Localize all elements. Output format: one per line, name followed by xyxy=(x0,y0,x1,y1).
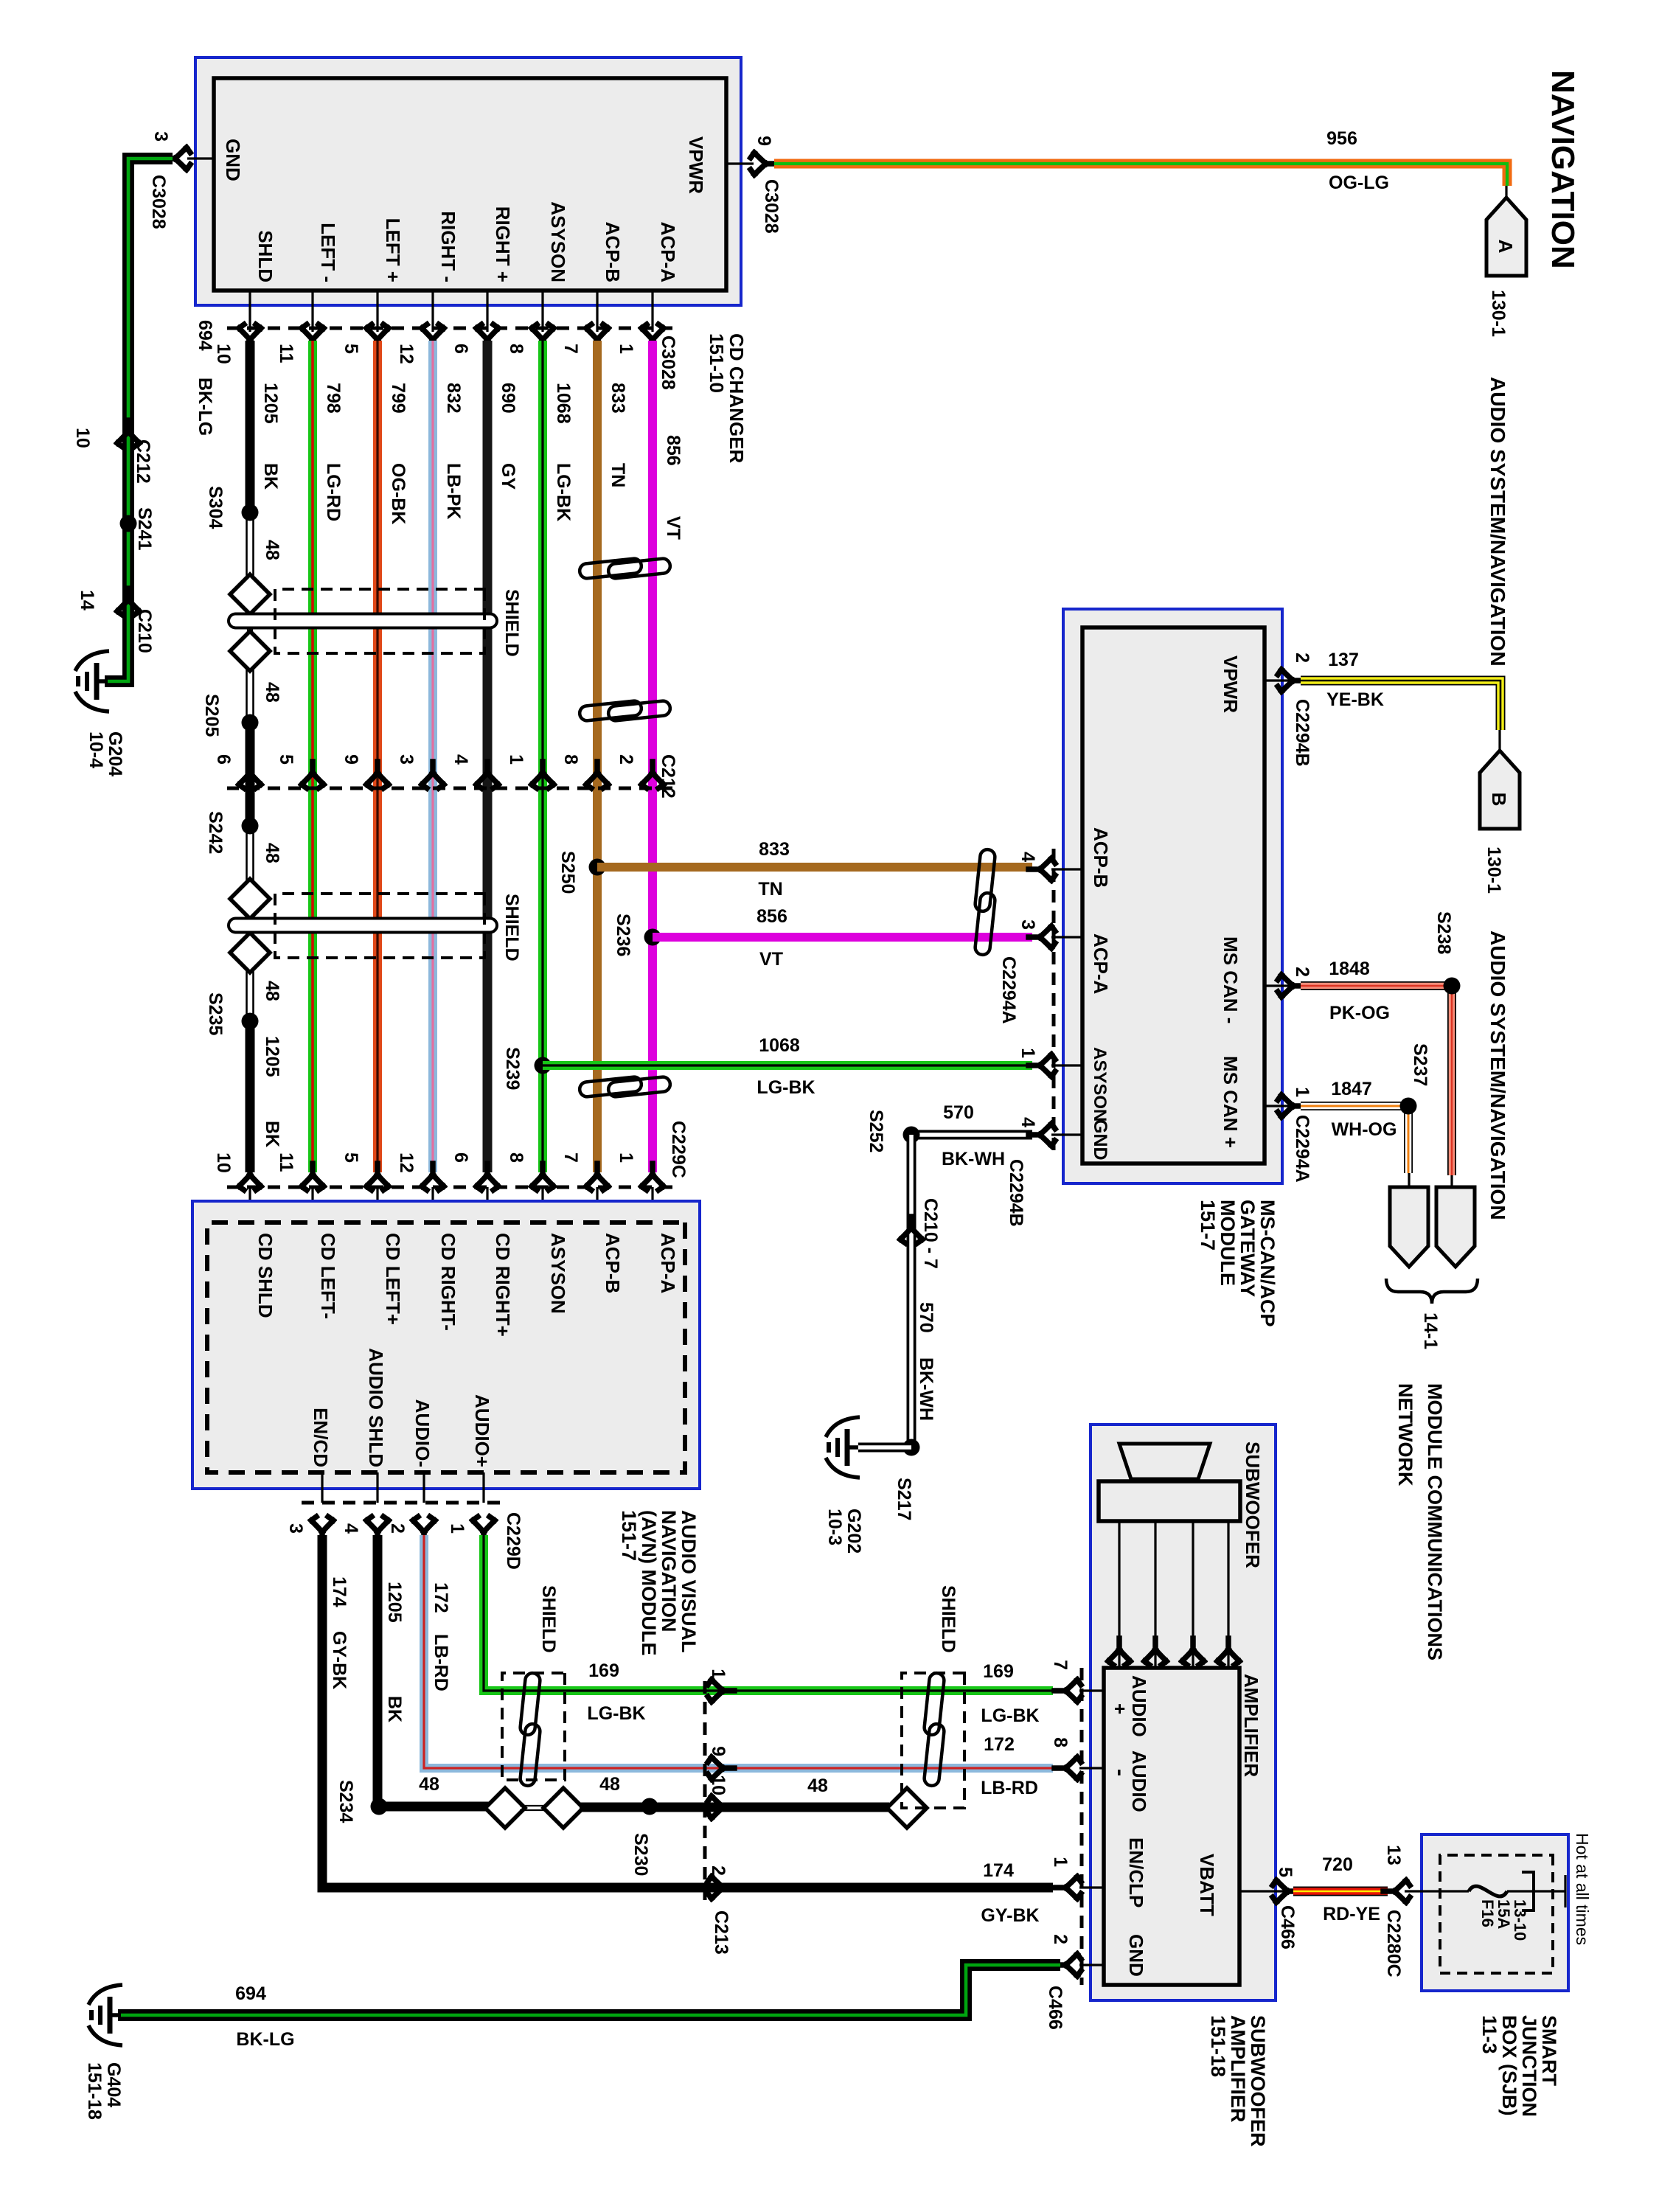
gateway bottom stub x1271 xyxy=(1051,936,1082,938)
splice S217 xyxy=(903,1439,920,1456)
svg-text:AUDIO VISUAL: AUDIO VISUAL xyxy=(678,1510,700,1653)
arrow at C212 RIGHT- xyxy=(422,762,444,788)
splice S234 xyxy=(371,1798,388,1815)
svg-text:G202: G202 xyxy=(844,1509,864,1554)
svg-text:10: 10 xyxy=(708,1775,728,1795)
svg-text:S217: S217 xyxy=(894,1478,914,1520)
connector C3028 dashed line xyxy=(227,327,672,330)
svg-text:13: 13 xyxy=(1383,1845,1404,1865)
svg-text:798: 798 xyxy=(323,383,344,414)
svg-text:694: 694 xyxy=(235,1983,266,2004)
arrow at C229D AUDIO SHLD xyxy=(366,1517,389,1543)
arrow at C229C RIGHT+ xyxy=(476,1164,498,1190)
wire 172 LB-RD xyxy=(424,1535,1053,1768)
arrow at C213 x2560 xyxy=(708,1877,734,1899)
svg-text:8: 8 xyxy=(1050,1737,1071,1747)
svg-text:172: 172 xyxy=(431,1582,451,1613)
svg-text:4: 4 xyxy=(341,1523,361,1534)
gateway VPWR stub xyxy=(1265,679,1293,681)
CD changer pin stub LEFT- xyxy=(311,291,313,332)
svg-text:OG-LG: OG-LG xyxy=(1329,173,1389,193)
svg-text:956: 956 xyxy=(1326,128,1357,149)
svg-text:C2294A: C2294A xyxy=(998,956,1019,1024)
CD changer pin stub SHLD xyxy=(248,291,251,332)
svg-text:832: 832 xyxy=(443,383,464,414)
svg-text:ACP-A: ACP-A xyxy=(657,1233,679,1294)
arrow at C3028 RIGHT- xyxy=(422,324,444,351)
svg-text:694: 694 xyxy=(195,320,215,351)
svg-text:1: 1 xyxy=(708,1669,728,1679)
svg-text:10: 10 xyxy=(72,428,93,448)
splice S241 xyxy=(120,515,137,532)
svg-text:A: A xyxy=(1495,240,1517,254)
amp VBATT arrow pin 5 xyxy=(1273,1880,1299,1902)
svg-text:GY: GY xyxy=(498,463,518,490)
subwoofer wire arrow 2 xyxy=(1182,1638,1204,1665)
svg-text:720: 720 xyxy=(1322,1854,1353,1875)
svg-text:S236: S236 xyxy=(613,914,633,956)
svg-text:12: 12 xyxy=(396,344,417,364)
svg-text:1848: 1848 xyxy=(1329,959,1370,979)
svg-text:CD CHANGER: CD CHANGER xyxy=(726,333,748,463)
subwoofer wire 2 xyxy=(1192,1521,1194,1668)
svg-text:C2294B: C2294B xyxy=(1006,1159,1026,1227)
svg-text:AMPLIFIER: AMPLIFIER xyxy=(1227,2015,1249,2123)
shield diamond 4 xyxy=(230,933,270,973)
svg-text:NAVIGATION: NAVIGATION xyxy=(658,1510,680,1632)
CD changer pin VPWR stub xyxy=(726,162,754,164)
svg-text:LEFT -: LEFT - xyxy=(317,223,339,282)
svg-text:CD SHLD: CD SHLD xyxy=(254,1233,276,1318)
svg-text:C466: C466 xyxy=(1045,1986,1065,2030)
svg-text:1: 1 xyxy=(447,1523,467,1534)
svg-text:1: 1 xyxy=(1292,1087,1312,1097)
svg-text:ACP-A: ACP-A xyxy=(657,222,679,283)
arrow at C212 LEFT+ xyxy=(366,762,389,788)
svg-text:S234: S234 xyxy=(335,1780,356,1823)
arrow at C213 x2398 xyxy=(708,1757,734,1779)
svg-text:CD LEFT+: CD LEFT+ xyxy=(382,1233,404,1325)
svg-text:S205: S205 xyxy=(201,694,222,737)
svg-text:MS-CAN/ACP: MS-CAN/ACP xyxy=(1256,1200,1279,1327)
wire 1205 BK (AUDIO SHLD) xyxy=(373,1535,383,1806)
gateway bottom arrow pin 4 x1539 xyxy=(1029,1124,1055,1146)
svg-text:AUDIO SYSTEM/NAVIGATION: AUDIO SYSTEM/NAVIGATION xyxy=(1486,931,1509,1220)
drain wire open segment S242-diamond3 xyxy=(252,830,254,881)
arrow at C212 ASYSON xyxy=(532,762,554,788)
svg-text:SUBWOOFER: SUBWOOFER xyxy=(1242,1441,1264,1568)
svg-text:SHIELD: SHIELD xyxy=(938,1585,959,1653)
wire 690 GY (RIGHT+) xyxy=(483,341,493,1172)
subwoofer wire arrow 1 xyxy=(1217,1638,1239,1665)
subwoofer wire arrow 3 xyxy=(1144,1638,1166,1665)
subwoofer wire 3 xyxy=(1154,1521,1156,1668)
svg-text:1205: 1205 xyxy=(262,1036,282,1077)
svg-text:S230: S230 xyxy=(630,1833,651,1876)
fuse bracket xyxy=(1522,1872,1534,1910)
svg-text:MODULE: MODULE xyxy=(1217,1200,1239,1286)
drain wire under shield bar 2 xyxy=(251,917,253,956)
svg-text:9: 9 xyxy=(754,136,774,146)
svg-text:LG-BK: LG-BK xyxy=(981,1705,1039,1726)
svg-text:1: 1 xyxy=(616,1152,636,1163)
svg-text:9: 9 xyxy=(341,754,361,765)
stub C229C to AVN ACP-A xyxy=(651,1187,653,1222)
wire 137 YE-BK xyxy=(1301,681,1500,730)
amp stub pin 8 xyxy=(1079,1767,1104,1769)
CD changer pin stub ACP-B xyxy=(596,291,598,332)
shield diamond 2 xyxy=(230,631,270,671)
twisted pair link 4 (branch TN/VT) xyxy=(975,849,996,956)
ground G404 xyxy=(88,1985,122,2045)
stub C229C to AVN RIGHT- xyxy=(431,1187,434,1222)
gateway bottom stub x1445 xyxy=(1051,1064,1082,1066)
gateway bottom arrow pin 1 x1445 xyxy=(1029,1054,1055,1077)
svg-text:Hot at all times: Hot at all times xyxy=(1573,1833,1592,1945)
svg-text:570: 570 xyxy=(943,1102,974,1123)
svg-text:BK: BK xyxy=(262,1121,282,1147)
gateway VPWR arrow pin 2 xyxy=(1278,669,1304,692)
shield diamond B xyxy=(543,1788,583,1828)
splice S236 xyxy=(644,929,661,946)
svg-text:169: 169 xyxy=(983,1661,1014,1682)
svg-text:856: 856 xyxy=(757,906,787,927)
wire 799 OG-BK (LEFT+) xyxy=(373,341,382,1172)
svg-text:1068: 1068 xyxy=(759,1035,800,1056)
arrow at C3028 SHLD xyxy=(239,324,261,351)
svg-text:C212: C212 xyxy=(658,754,678,799)
wire 1847 WH-OG xyxy=(1301,1106,1408,1173)
svg-text:SHIELD: SHIELD xyxy=(538,1585,559,1653)
subwoofer wire 4 xyxy=(1118,1521,1120,1668)
svg-text:VBATT: VBATT xyxy=(1196,1854,1218,1916)
svg-text:YE-BK: YE-BK xyxy=(1326,689,1384,710)
ground G204 xyxy=(75,651,109,712)
svg-text:3: 3 xyxy=(1018,919,1038,930)
svg-text:LG-RD: LG-RD xyxy=(323,463,344,521)
wire 694 BK-LG (amp GND) xyxy=(118,1965,1060,2015)
AVN inner dashed box xyxy=(207,1222,685,1472)
wire 570 BK-WH branch xyxy=(911,1130,1032,1140)
SJB wire top tick xyxy=(1564,1875,1566,1907)
svg-text:4: 4 xyxy=(451,754,471,765)
svg-text:5: 5 xyxy=(341,344,361,354)
svg-text:174: 174 xyxy=(983,1860,1014,1881)
svg-text:C2294B: C2294B xyxy=(1292,699,1312,767)
pin 9 arrow C3028 (VPWR) xyxy=(751,153,777,175)
wire 137 stub to connector B xyxy=(1498,730,1500,751)
connector C212 arrow on G204 wire xyxy=(117,420,139,447)
shield dashed box 4 (near amp) xyxy=(902,1673,964,1808)
arrow at C229C LEFT+ xyxy=(366,1164,389,1190)
AVN stub AUDIO- xyxy=(422,1472,425,1503)
svg-text:PK-OG: PK-OG xyxy=(1329,1003,1390,1023)
arrow at C212 ACP-A xyxy=(641,762,664,788)
svg-text:C2294A: C2294A xyxy=(1292,1115,1312,1183)
stub S237 to bullet xyxy=(1408,1173,1410,1187)
connector C229C dashed line xyxy=(227,1186,672,1189)
amp arrow pin 7 xyxy=(1054,1680,1081,1702)
stub C229C to AVN ASYSON xyxy=(541,1187,543,1222)
svg-text:C212: C212 xyxy=(133,439,153,484)
gateway bottom stub x1179 xyxy=(1051,868,1082,870)
svg-text:1847: 1847 xyxy=(1331,1079,1372,1099)
svg-text:S238: S238 xyxy=(1433,911,1454,954)
amp stub pin 2 xyxy=(1079,1964,1104,1966)
svg-text:LB-RD: LB-RD xyxy=(431,1634,451,1691)
shield diamond 3 xyxy=(230,879,270,919)
svg-text:S237: S237 xyxy=(1410,1043,1430,1086)
drain wire under shield bar 1 xyxy=(251,612,253,651)
wire stub S217 to G202 xyxy=(858,1443,911,1453)
svg-text:833: 833 xyxy=(608,383,628,414)
svg-text:SHIELD: SHIELD xyxy=(501,589,522,657)
svg-text:1: 1 xyxy=(1050,1857,1071,1867)
svg-text:1205: 1205 xyxy=(384,1582,405,1623)
AVN stub EN/CD xyxy=(321,1472,323,1503)
svg-text:AUDIO: AUDIO xyxy=(1128,1675,1150,1737)
connector A xyxy=(1486,198,1526,276)
svg-text:LG-BK: LG-BK xyxy=(553,463,574,521)
drain wire 48 segment S230-diamondC xyxy=(650,1803,889,1812)
subwoofer cone xyxy=(1119,1444,1210,1479)
network pin bullet (WH-OG) xyxy=(1390,1187,1428,1267)
wire 833 TN branch xyxy=(597,863,1032,872)
svg-text:LG-BK: LG-BK xyxy=(757,1077,815,1098)
svg-text:MS CAN +: MS CAN + xyxy=(1220,1056,1242,1148)
splice S235 xyxy=(242,1013,259,1030)
svg-text:172: 172 xyxy=(984,1734,1015,1755)
svg-text:AUDIO SHLD: AUDIO SHLD xyxy=(365,1348,387,1467)
svg-text:-: - xyxy=(1108,1769,1133,1776)
shield dashed box 3 (near AVN) xyxy=(502,1673,565,1780)
svg-text:C2280C: C2280C xyxy=(1383,1910,1404,1978)
svg-text:799: 799 xyxy=(388,383,408,414)
svg-text:2: 2 xyxy=(1292,653,1312,663)
splice S238 xyxy=(1444,978,1461,995)
svg-text:ACP-B: ACP-B xyxy=(602,1233,624,1293)
wire 833 TN (ACP-B) xyxy=(593,341,602,1172)
svg-text:AUDIO+: AUDIO+ xyxy=(471,1394,493,1467)
arrow at C212 RIGHT+ xyxy=(476,762,498,788)
svg-text:130-1: 130-1 xyxy=(1488,290,1509,337)
svg-text:8: 8 xyxy=(506,1152,526,1163)
wire 174 GY-BK xyxy=(322,1535,1053,1888)
arrow C2280C pin 13 xyxy=(1383,1880,1410,1902)
svg-text:5: 5 xyxy=(276,754,296,765)
svg-text:C3028: C3028 xyxy=(658,335,678,390)
AVN stub AUDIO+ xyxy=(482,1472,484,1503)
splice S242 xyxy=(242,818,259,835)
svg-text:48: 48 xyxy=(262,981,282,1001)
gateway MS CAN+ arrow pin 1 xyxy=(1278,1095,1304,1117)
subwoofer wire 1 xyxy=(1227,1521,1229,1668)
wire 169 LG-BK xyxy=(484,1535,1053,1691)
twisted loop (box 3) xyxy=(520,1672,541,1787)
drain wire 48 segment diamondB-S230 xyxy=(580,1803,650,1812)
arrow at C229C ACP-A xyxy=(641,1164,664,1190)
svg-text:10-4: 10-4 xyxy=(86,731,106,768)
svg-text:AMPLIFIER: AMPLIFIER xyxy=(1240,1674,1262,1777)
svg-text:C466: C466 xyxy=(1277,1905,1298,1950)
svg-text:G404: G404 xyxy=(103,2062,124,2107)
svg-text:48: 48 xyxy=(807,1775,828,1796)
stub S238 to bullet xyxy=(1450,1175,1453,1187)
SJB inner dashed box xyxy=(1440,1855,1553,1973)
svg-text:151-7: 151-7 xyxy=(1197,1200,1219,1251)
svg-text:10-3: 10-3 xyxy=(824,1509,845,1545)
svg-text:+: + xyxy=(1109,1703,1131,1714)
splice S252 xyxy=(903,1127,920,1144)
svg-text:130-1: 130-1 xyxy=(1484,846,1504,894)
svg-text:GND: GND xyxy=(1090,1119,1110,1161)
gateway MS CAN- stub xyxy=(1265,984,1293,987)
svg-text:48: 48 xyxy=(262,843,282,863)
arrow at C212 SHLD xyxy=(239,762,261,788)
svg-text:8: 8 xyxy=(506,344,526,354)
connector C210 arrow pin 14 xyxy=(117,588,139,615)
network pin bullet (PK-OG) xyxy=(1436,1187,1475,1267)
AVN outer box xyxy=(192,1201,700,1489)
shield diamond 1 xyxy=(230,574,270,614)
svg-text:1205: 1205 xyxy=(260,383,281,424)
svg-text:C210 - 7: C210 - 7 xyxy=(920,1198,941,1269)
svg-text:AUDIO-: AUDIO- xyxy=(411,1399,434,1467)
arrow at C3028 RIGHT+ xyxy=(476,324,498,351)
connector C466 dashed line xyxy=(1080,1668,1084,1985)
svg-text:151-18: 151-18 xyxy=(1207,2015,1229,2077)
svg-text:11-3: 11-3 xyxy=(1478,2015,1500,2054)
svg-text:C3028: C3028 xyxy=(761,179,782,234)
subwoofer wire arrow 4 xyxy=(1108,1638,1130,1665)
svg-text:BK-WH: BK-WH xyxy=(916,1357,936,1421)
connector C212 dashed line xyxy=(227,787,672,790)
svg-text:WH-OG: WH-OG xyxy=(1332,1119,1397,1140)
svg-text:AUDIO: AUDIO xyxy=(1128,1750,1150,1812)
shield diamond C xyxy=(887,1788,927,1828)
CD changer outer box xyxy=(195,58,741,305)
gateway bottom arrow pin 3 x1271 xyxy=(1029,926,1055,948)
svg-text:MODULE COMMUNICATIONS: MODULE COMMUNICATIONS xyxy=(1424,1383,1446,1660)
drain wire 48 segment S234-diamondA xyxy=(379,1802,490,1812)
svg-text:169: 169 xyxy=(588,1660,619,1681)
svg-text:SHLD: SHLD xyxy=(254,230,276,282)
arrow at C229D AUDIO- xyxy=(413,1517,435,1543)
CD changer pin stub LEFT+ xyxy=(376,291,378,332)
gateway outer box xyxy=(1063,609,1282,1183)
svg-text:3: 3 xyxy=(396,754,417,765)
svg-text:2: 2 xyxy=(1292,967,1312,977)
arrow at C213 x2451 xyxy=(708,1796,734,1818)
twisted pair link 1 (TN/VT) xyxy=(579,558,671,580)
CD changer pin stub RIGHT+ xyxy=(486,291,488,332)
ground G202 xyxy=(826,1417,860,1478)
fuse F16 element xyxy=(1469,1886,1507,1896)
svg-text:2: 2 xyxy=(708,1865,728,1876)
stub C229C to AVN RIGHT+ xyxy=(486,1187,488,1222)
arrow at C212 LEFT- xyxy=(302,762,324,788)
svg-text:ASYSON: ASYSON xyxy=(1090,1047,1110,1121)
svg-text:3: 3 xyxy=(285,1523,306,1534)
svg-text:F16: F16 xyxy=(1478,1899,1497,1927)
arrow at C3028 LEFT- xyxy=(302,324,324,351)
CD changer inner box xyxy=(214,78,726,291)
svg-text:(AVN) MODULE: (AVN) MODULE xyxy=(638,1510,660,1655)
svg-text:5: 5 xyxy=(341,1152,361,1163)
svg-text:S239: S239 xyxy=(502,1047,523,1090)
svg-text:48: 48 xyxy=(262,540,282,560)
SJB outer box xyxy=(1422,1834,1568,1991)
twisted pair link 3 (TN/VT) xyxy=(579,1077,671,1098)
pin 3 arrow C3028 (GND) xyxy=(164,147,190,170)
svg-text:2: 2 xyxy=(616,754,636,765)
svg-text:690: 690 xyxy=(498,383,518,414)
svg-text:2: 2 xyxy=(1050,1934,1071,1944)
wire 694 BK-LG to G204 xyxy=(105,159,173,681)
splice S237 xyxy=(1400,1098,1417,1115)
connector C2294 dashed line (gateway) xyxy=(1052,849,1056,1154)
svg-text:GY-BK: GY-BK xyxy=(329,1631,349,1689)
svg-text:14: 14 xyxy=(77,590,97,611)
svg-text:GND: GND xyxy=(1125,1934,1147,1977)
svg-text:3: 3 xyxy=(150,131,171,142)
svg-text:174: 174 xyxy=(329,1576,349,1607)
svg-text:BK: BK xyxy=(384,1696,405,1722)
svg-text:6: 6 xyxy=(451,1152,471,1163)
svg-text:1068: 1068 xyxy=(553,383,574,424)
svg-text:15A: 15A xyxy=(1495,1899,1513,1929)
drain wire open segment S304-diamond xyxy=(252,512,254,577)
svg-text:856: 856 xyxy=(663,435,684,466)
subwoofer amplifier outer box xyxy=(1091,1425,1276,2000)
wire 1205 BK segment S235-C229C xyxy=(246,1026,255,1172)
svg-text:48: 48 xyxy=(419,1774,439,1795)
svg-text:NAVIGATION: NAVIGATION xyxy=(1545,70,1581,269)
amp arrow pin 8 xyxy=(1054,1757,1081,1779)
svg-text:1: 1 xyxy=(506,754,526,765)
svg-text:BK-WH: BK-WH xyxy=(942,1149,1005,1169)
svg-text:14-1: 14-1 xyxy=(1420,1312,1441,1349)
shield diamond A xyxy=(485,1788,525,1828)
svg-text:VT: VT xyxy=(663,516,684,540)
gateway MS CAN+ stub xyxy=(1265,1105,1293,1107)
svg-text:SUBWOOFER: SUBWOOFER xyxy=(1247,2015,1269,2147)
svg-text:LB-RD: LB-RD xyxy=(981,1778,1038,1798)
gateway MS CAN- arrow pin 2 xyxy=(1278,975,1304,997)
svg-text:6: 6 xyxy=(213,754,234,765)
svg-text:7: 7 xyxy=(1050,1660,1071,1670)
svg-text:S235: S235 xyxy=(205,992,226,1035)
svg-text:11: 11 xyxy=(276,344,296,364)
svg-text:C229D: C229D xyxy=(503,1512,524,1570)
svg-text:1: 1 xyxy=(1018,1048,1038,1058)
svg-text:4: 4 xyxy=(1018,1117,1038,1127)
stub C229C to AVN LEFT- xyxy=(311,1187,313,1222)
wire 956 stub to connector A xyxy=(1505,186,1507,198)
wire 1848 PK-OG xyxy=(1301,986,1452,1175)
arrow at C213 x2293 xyxy=(708,1680,734,1702)
arrow at C3028 ACP-B xyxy=(586,324,608,351)
twisted loop (box 4) xyxy=(924,1672,945,1787)
wire 570 BK-WH to S217 xyxy=(907,1135,917,1447)
svg-text:G204: G204 xyxy=(105,731,125,776)
AVN stub AUDIO SHLD xyxy=(376,1472,378,1503)
drain wire between diamonds A-B xyxy=(520,1805,547,1806)
svg-text:9: 9 xyxy=(708,1746,728,1756)
arrow at C229C RIGHT- xyxy=(422,1164,444,1190)
gateway bottom arrow pin 4 x1179 xyxy=(1029,858,1055,880)
svg-text:137: 137 xyxy=(1328,650,1359,670)
